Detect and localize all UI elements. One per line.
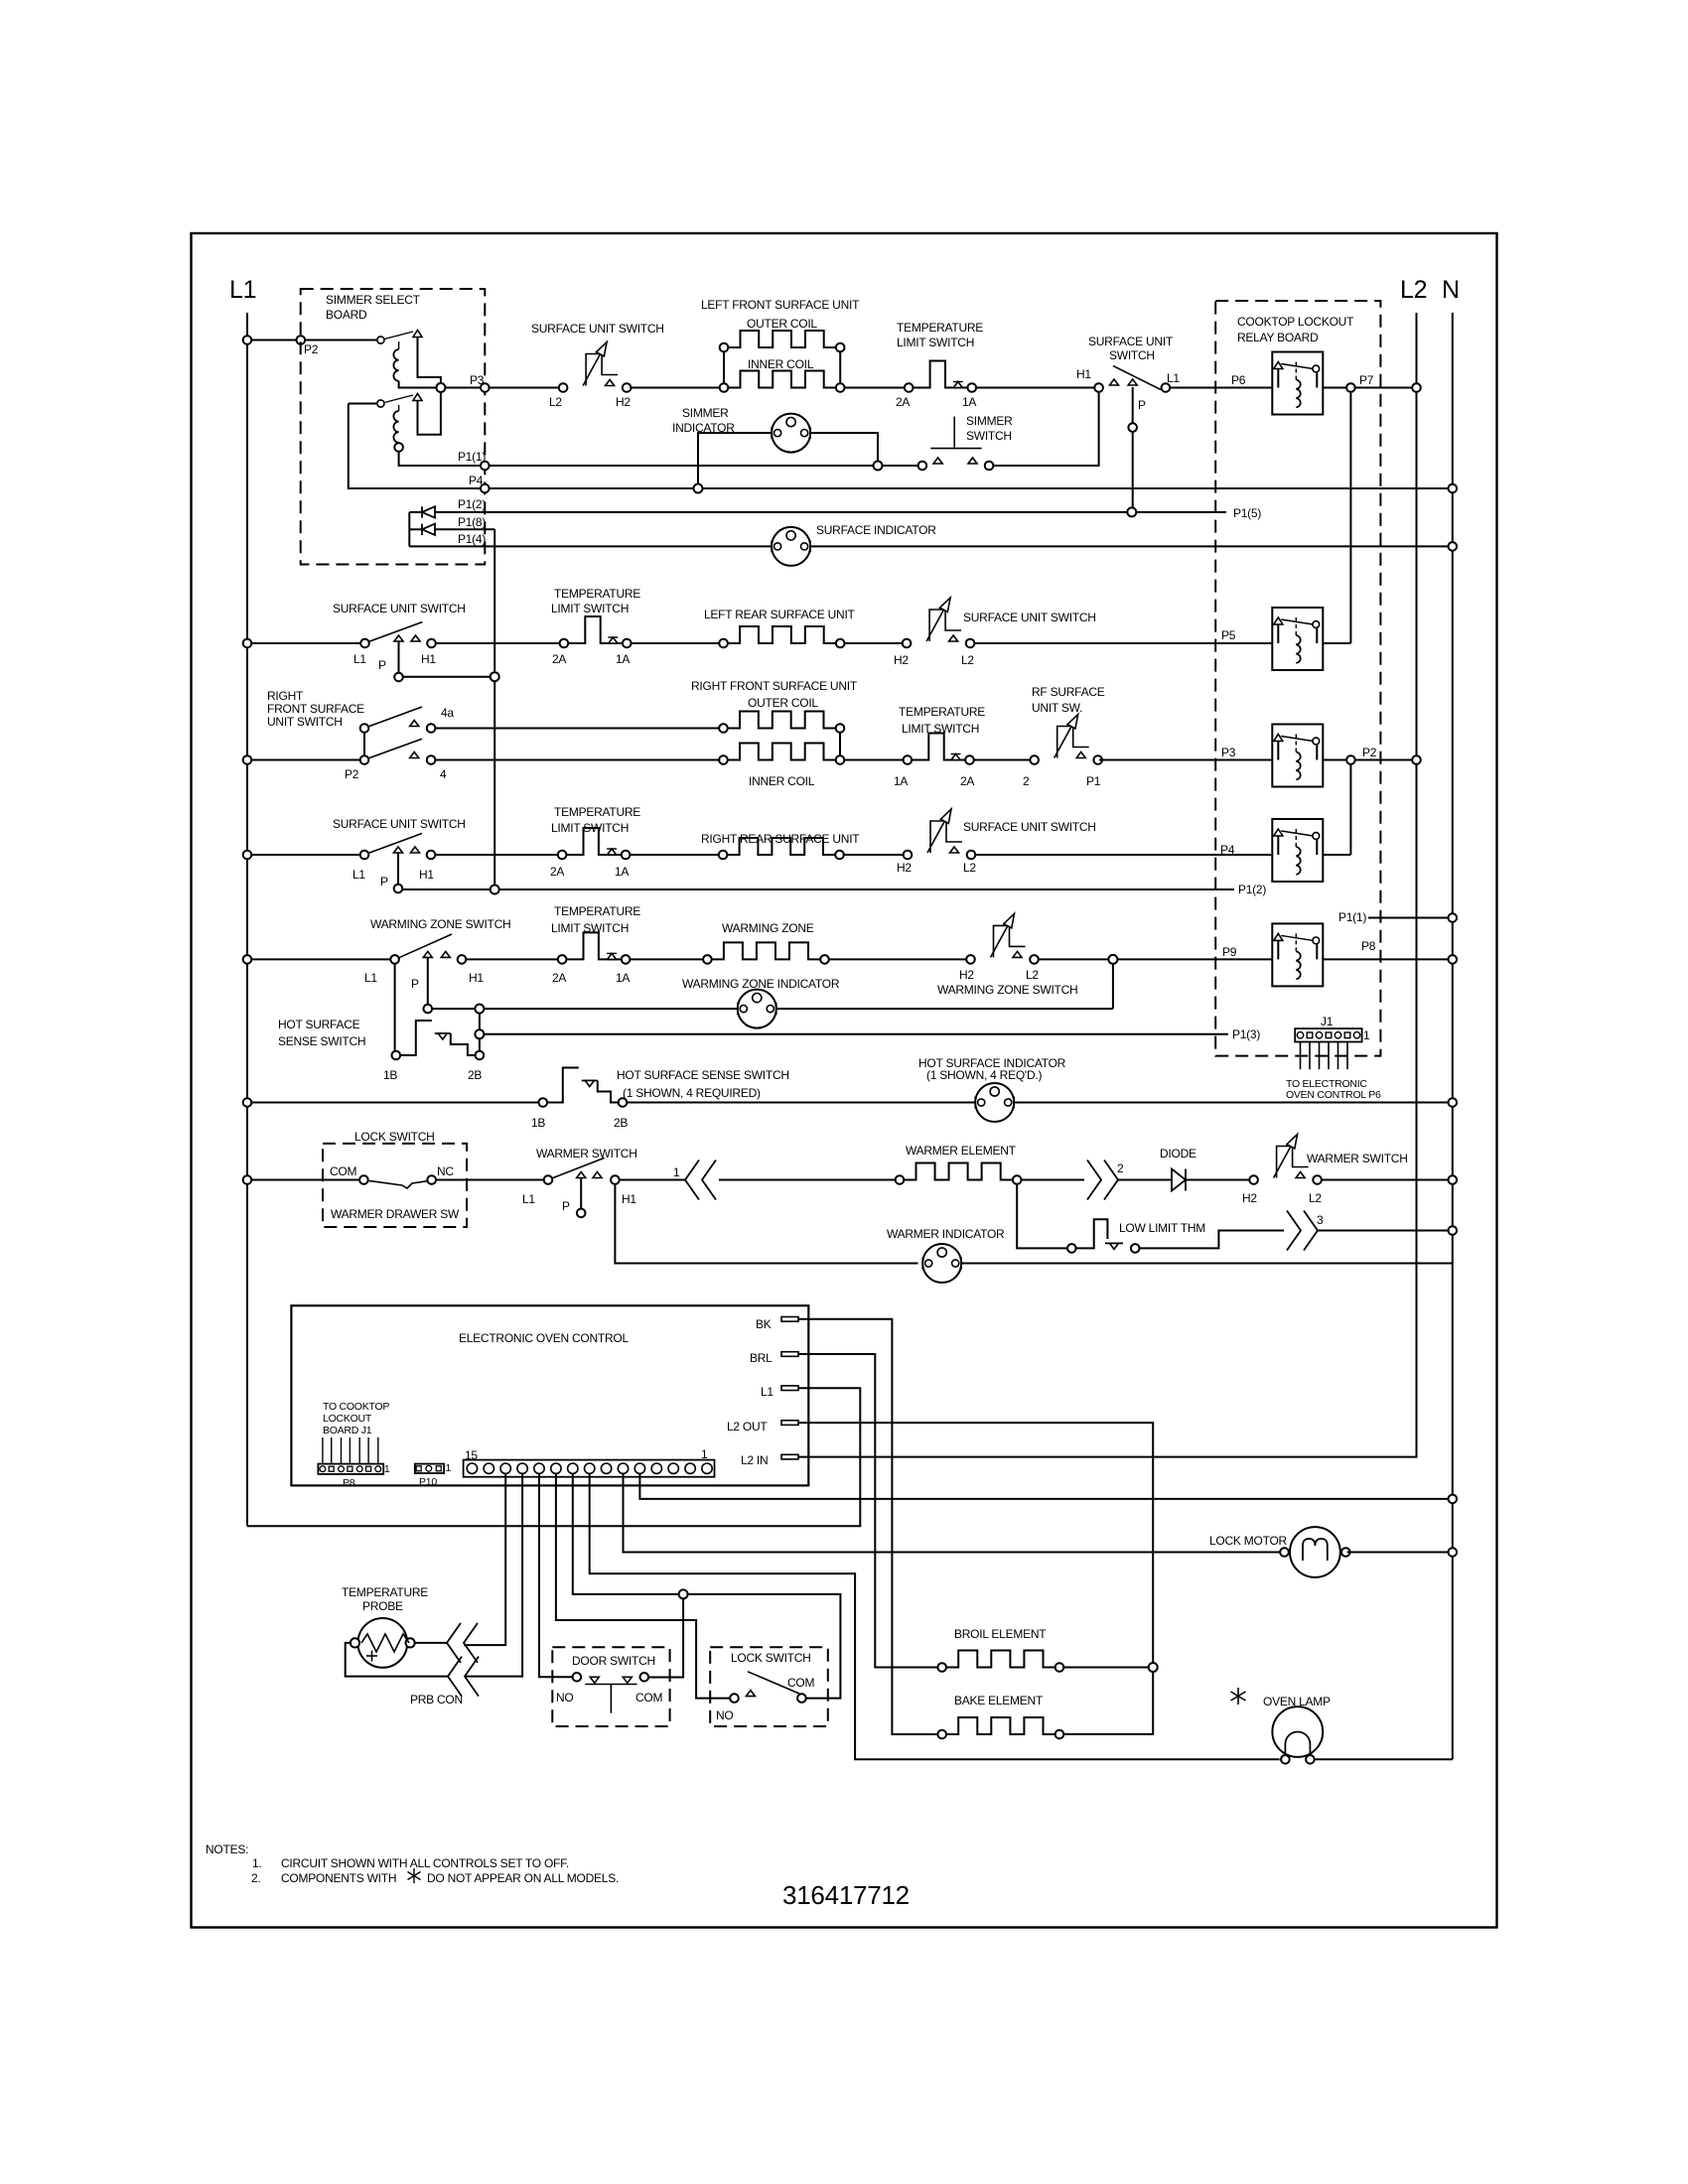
wire L2 IN to L2 bus bbox=[798, 1453, 1417, 1457]
svg-text:L2: L2 bbox=[1309, 1191, 1322, 1205]
hot surface sense switch bbox=[531, 1068, 628, 1131]
svg-text:NOTES:: NOTES: bbox=[206, 1843, 248, 1856]
warmer switch bbox=[522, 1158, 636, 1213]
svg-text:LIMIT SWITCH: LIMIT SWITCH bbox=[897, 336, 974, 349]
wire indicator to N bus rung6 bbox=[1014, 1098, 1457, 1107]
svg-text:OUTER COIL: OUTER COIL bbox=[748, 696, 818, 710]
junction P vertical on P1(5) row bbox=[1127, 506, 1261, 520]
connector P10 bbox=[415, 1462, 452, 1488]
junction hot sense top bbox=[475, 1005, 484, 1014]
svg-text:1: 1 bbox=[446, 1462, 452, 1474]
warming zone element bbox=[703, 942, 829, 963]
wire 1A to warming element bbox=[630, 958, 703, 960]
svg-text:2A: 2A bbox=[550, 865, 564, 879]
warmer drawer sw label bbox=[331, 1207, 460, 1221]
temperature limit switch TL2 bbox=[552, 616, 632, 666]
svg-text:P8: P8 bbox=[343, 1477, 355, 1489]
temperature probe bbox=[351, 1618, 415, 1668]
svg-text:2A: 2A bbox=[552, 652, 566, 666]
warming zone indicator label bbox=[682, 977, 840, 991]
svg-text:P: P bbox=[378, 658, 386, 672]
svg-text:COMPONENTS WITH: COMPONENTS WITH bbox=[281, 1871, 396, 1885]
wire L2 to N bus rung7 bbox=[1322, 1175, 1457, 1184]
svg-text:N: N bbox=[1442, 276, 1460, 304]
border frame bbox=[192, 233, 1497, 1928]
svg-text:SURFACE UNIT SWITCH: SURFACE UNIT SWITCH bbox=[963, 820, 1096, 834]
wire P7 to L2 bus bbox=[1355, 383, 1421, 392]
wire strip pin3 to probe bbox=[464, 1473, 505, 1645]
bus L2 vertical wire bbox=[1416, 313, 1418, 1453]
temperature limit switch TL2 label bbox=[551, 587, 640, 615]
svg-text:RIGHT: RIGHT bbox=[267, 689, 304, 703]
wire junction to relay RL5 bbox=[1117, 945, 1272, 959]
surface unit switch SW1 bbox=[549, 342, 631, 410]
warming zone element label bbox=[722, 921, 814, 935]
right front unit switch label bbox=[267, 689, 364, 729]
pin BRL bbox=[750, 1351, 798, 1365]
switch SW5 upper pole bbox=[360, 706, 455, 733]
wire diode to H2 bbox=[1186, 1179, 1249, 1181]
hot surface sense switch label bbox=[617, 1068, 789, 1100]
door switch dashed box bbox=[552, 1647, 669, 1726]
svg-text:SURFACE UNIT SWITCH: SURFACE UNIT SWITCH bbox=[531, 322, 664, 336]
wire H1 to chevron bbox=[620, 1179, 685, 1181]
wire P1(3) row bbox=[484, 1027, 1260, 1041]
svg-text:P: P bbox=[562, 1199, 570, 1213]
notes label bbox=[206, 1843, 248, 1856]
node P2 lockout bbox=[1346, 746, 1377, 764]
wire element to H2 rung2 bbox=[845, 642, 903, 644]
svg-text:SIMMER: SIMMER bbox=[682, 406, 729, 420]
wire 2B up to P1(3) row bbox=[479, 1014, 481, 1051]
svg-text:P1(1): P1(1) bbox=[458, 450, 486, 464]
node P4 bbox=[469, 474, 490, 492]
wire 1A to H1 bbox=[976, 387, 1094, 389]
svg-text:INNER COIL: INNER COIL bbox=[749, 774, 815, 788]
svg-text:TEMPERATURE: TEMPERATURE bbox=[899, 705, 985, 719]
pin L2 OUT bbox=[727, 1420, 798, 1433]
svg-text:SENSE SWITCH: SENSE SWITCH bbox=[278, 1034, 365, 1048]
svg-text:L2: L2 bbox=[549, 395, 562, 409]
svg-text:P1(2): P1(2) bbox=[1238, 883, 1266, 896]
wire riser right outer coil bbox=[839, 351, 841, 383]
wire 1A to element rung4 bbox=[630, 854, 718, 856]
svg-text:SURFACE INDICATOR: SURFACE INDICATOR bbox=[816, 523, 936, 537]
node P1(1) bbox=[458, 450, 490, 470]
svg-text:L2: L2 bbox=[963, 861, 976, 875]
wire P1(2)/P1(5) row bbox=[435, 497, 1226, 512]
svg-text:2A: 2A bbox=[552, 971, 566, 985]
svg-text:P2: P2 bbox=[345, 767, 359, 781]
relay K1 coil bbox=[393, 341, 441, 388]
warmer element label bbox=[906, 1144, 1017, 1158]
svg-text:P6: P6 bbox=[1231, 373, 1246, 387]
svg-text:BK: BK bbox=[756, 1317, 772, 1331]
temperature limit switch TL3 bbox=[894, 734, 974, 789]
right rear surface unit element bbox=[719, 838, 844, 859]
wire coil right link bbox=[839, 733, 841, 755]
pin L2 IN bbox=[741, 1453, 798, 1467]
svg-text:RELAY BOARD: RELAY BOARD bbox=[1237, 331, 1319, 344]
cooktop lockout relay board label bbox=[1237, 315, 1354, 344]
node N bus label bbox=[1442, 276, 1460, 304]
svg-text:H2: H2 bbox=[616, 395, 631, 409]
connector probe chevron 2 bbox=[448, 1657, 479, 1697]
note 1 bbox=[252, 1856, 569, 1870]
junction broil right bbox=[1149, 1663, 1158, 1672]
svg-text:P1(8): P1(8) bbox=[458, 515, 486, 529]
bake element label bbox=[954, 1694, 1044, 1707]
door switch label bbox=[572, 1654, 655, 1668]
surface unit switch SW6 bbox=[352, 834, 435, 893]
svg-text:LOCK MOTOR: LOCK MOTOR bbox=[1209, 1534, 1288, 1548]
svg-text:HOT SURFACE SENSE SWITCH: HOT SURFACE SENSE SWITCH bbox=[617, 1068, 789, 1082]
svg-text:COOKTOP LOCKOUT: COOKTOP LOCKOUT bbox=[1237, 315, 1354, 329]
wire BK to bake element bbox=[798, 1319, 937, 1734]
pin BK bbox=[756, 1317, 798, 1332]
wire L2 to relay RL2 bbox=[974, 628, 1272, 643]
svg-text:L1: L1 bbox=[229, 276, 256, 304]
svg-text:DIODE: DIODE bbox=[1160, 1147, 1196, 1160]
to cooktop lockout board label bbox=[323, 1401, 389, 1436]
svg-text:1: 1 bbox=[1363, 1028, 1370, 1042]
wire H1 to 2A rung4 bbox=[435, 854, 558, 856]
relay RL1 bbox=[1272, 352, 1323, 415]
svg-text:H1: H1 bbox=[1076, 367, 1091, 381]
node L2 bus label bbox=[1400, 276, 1427, 304]
node P2 bbox=[297, 336, 319, 356]
relay RL2 bbox=[1272, 608, 1323, 670]
right front outer coil element bbox=[719, 712, 844, 733]
surface unit switch SW3 label bbox=[333, 602, 466, 615]
lock switch dashed box bbox=[710, 1647, 828, 1726]
surface unit switch SW1 label bbox=[531, 322, 664, 336]
warming zone switch right bbox=[959, 913, 1039, 982]
node L1 rung1 bbox=[1162, 371, 1181, 392]
warming zone switch label bbox=[370, 917, 510, 931]
warmer indicator bbox=[922, 1244, 961, 1283]
wire simmer indicator left leg bbox=[698, 433, 772, 483]
surface unit switch SW7 label bbox=[963, 820, 1096, 834]
wire P3 to L2 bbox=[490, 387, 559, 389]
wire K2 fixed lead to A1 bbox=[418, 392, 441, 435]
right front surface unit label bbox=[691, 679, 858, 788]
wire probe left leg bbox=[346, 1643, 448, 1677]
svg-text:H1: H1 bbox=[421, 652, 436, 666]
junction rung5 bbox=[1108, 955, 1117, 964]
svg-text:4: 4 bbox=[440, 767, 447, 781]
simmer indicator bbox=[772, 414, 810, 453]
svg-text:ELECTRONIC OVEN CONTROL: ELECTRONIC OVEN CONTROL bbox=[459, 1331, 630, 1345]
svg-text:L1: L1 bbox=[1167, 371, 1180, 385]
svg-text:UNIT SWITCH: UNIT SWITCH bbox=[267, 715, 343, 729]
svg-text:SURFACE UNIT: SURFACE UNIT bbox=[1088, 335, 1174, 348]
svg-text:H1: H1 bbox=[419, 868, 434, 882]
diode D2 bbox=[409, 524, 435, 535]
svg-text:15: 15 bbox=[465, 1448, 478, 1462]
node P3 bbox=[470, 373, 490, 392]
wire chevron 3 to N bus bbox=[1318, 1226, 1457, 1235]
svg-text:P: P bbox=[1138, 398, 1146, 412]
temperature limit switch TL3 label bbox=[899, 705, 985, 736]
svg-text:P2: P2 bbox=[1362, 746, 1377, 759]
svg-text:L1: L1 bbox=[353, 652, 366, 666]
wire L1 bus to lock switch bbox=[243, 1175, 359, 1184]
relay K1 contact in simmer board bbox=[304, 331, 422, 344]
wire SW6 P row to P1(2) bbox=[402, 888, 1234, 890]
wire L1 bus to SW6 bbox=[243, 851, 361, 860]
svg-text:LEFT FRONT SURFACE UNIT: LEFT FRONT SURFACE UNIT bbox=[701, 298, 860, 312]
connector chevron 2 bbox=[1087, 1160, 1124, 1200]
svg-text:TEMPERATURE: TEMPERATURE bbox=[554, 587, 640, 601]
svg-text:TO COOKTOP: TO COOKTOP bbox=[323, 1401, 389, 1413]
surface unit switch SW4 bbox=[894, 598, 974, 667]
temperature limit switch TL4 bbox=[550, 828, 630, 879]
warmer switch right label bbox=[1307, 1152, 1408, 1165]
switch SW5 lower pole bbox=[345, 739, 447, 781]
wire oven lamp to N bus bbox=[1315, 1758, 1453, 1760]
surface unit switch SW7 bbox=[897, 809, 976, 875]
diode D1 bbox=[409, 506, 435, 517]
svg-text:SURFACE UNIT SWITCH: SURFACE UNIT SWITCH bbox=[333, 602, 466, 615]
wire strip pin7 to lock switch COM bbox=[573, 1473, 841, 1698]
simmer select board dashed box bbox=[301, 289, 486, 565]
svg-text:BROIL ELEMENT: BROIL ELEMENT bbox=[954, 1627, 1047, 1641]
junction on P1(1) row bbox=[874, 462, 883, 471]
wire J1 pin leads bbox=[1301, 1042, 1348, 1070]
svg-text:TEMPERATURE: TEMPERATURE bbox=[554, 904, 640, 918]
svg-text:L1: L1 bbox=[352, 868, 365, 882]
svg-text:P: P bbox=[380, 875, 388, 888]
wire P2 to L2 bus bbox=[1355, 755, 1421, 764]
connector probe chevron 1 bbox=[447, 1623, 478, 1663]
right rear surface unit label bbox=[701, 832, 860, 846]
wire H1 drop to indicator row bbox=[615, 1184, 917, 1264]
wire diode bracket left bbox=[408, 512, 410, 547]
svg-text:L2: L2 bbox=[1400, 276, 1427, 304]
wire strip pin4 to probe bbox=[465, 1473, 522, 1676]
svg-text:BOARD J1: BOARD J1 bbox=[323, 1425, 372, 1436]
svg-text:SIMMER: SIMMER bbox=[966, 414, 1013, 428]
note 2 asterisk bbox=[408, 1868, 421, 1883]
svg-text:SIMMER SELECT: SIMMER SELECT bbox=[326, 293, 421, 307]
svg-text:1: 1 bbox=[673, 1165, 680, 1179]
wire to simmer switch bbox=[883, 465, 918, 467]
svg-text:2A: 2A bbox=[960, 774, 974, 788]
svg-text:PROBE: PROBE bbox=[362, 1599, 403, 1613]
svg-text:2.: 2. bbox=[251, 1871, 261, 1885]
surface unit switch SW3 bbox=[353, 622, 436, 682]
connector chevron 3 bbox=[1287, 1211, 1324, 1251]
wire P1(8) row bbox=[435, 515, 494, 529]
svg-text:UNIT SW.: UNIT SW. bbox=[1032, 701, 1082, 715]
svg-text:COM: COM bbox=[787, 1676, 815, 1690]
junction on P1(3) row bbox=[475, 1029, 484, 1038]
svg-text:P7: P7 bbox=[1359, 373, 1374, 387]
svg-text:P4: P4 bbox=[1220, 843, 1235, 857]
svg-text:NO: NO bbox=[556, 1691, 574, 1705]
hot surface sense switch label left bbox=[278, 1018, 365, 1048]
warmer drawer switch dashed box bbox=[323, 1144, 467, 1227]
node P7 bbox=[1346, 373, 1374, 392]
svg-text:HOT SURFACE: HOT SURFACE bbox=[278, 1018, 360, 1031]
junction door COM branch bbox=[679, 1589, 688, 1598]
simmer indicator label bbox=[672, 406, 735, 435]
svg-text:P1: P1 bbox=[1086, 774, 1101, 788]
relay K2 coil bbox=[393, 405, 481, 466]
wire simmer switch to H1 bbox=[993, 392, 1098, 466]
wire 1A to element rung2 bbox=[632, 642, 720, 644]
wire relay RL5 output to N bus bbox=[1323, 939, 1457, 964]
svg-text:H2: H2 bbox=[959, 968, 974, 982]
wire element to H2 rung5 bbox=[829, 958, 966, 960]
svg-text:BAKE ELEMENT: BAKE ELEMENT bbox=[954, 1694, 1044, 1707]
wire probe right to chevron bbox=[415, 1642, 447, 1644]
svg-text:NO: NO bbox=[716, 1708, 734, 1722]
warmer indicator label bbox=[887, 1227, 1005, 1241]
wire vertical x498 bbox=[493, 529, 495, 889]
svg-text:P1(2): P1(2) bbox=[458, 497, 486, 511]
wire lock motor to N bus bbox=[1347, 1548, 1458, 1557]
oven lamp bbox=[1272, 1706, 1323, 1764]
temperature limit switch TL1 bbox=[896, 361, 976, 410]
svg-text:P3: P3 bbox=[470, 373, 485, 387]
svg-text:SWITCH: SWITCH bbox=[966, 429, 1012, 443]
wire L1 to P2 bbox=[243, 336, 301, 344]
left front surface unit label bbox=[701, 298, 860, 371]
warmer element bbox=[896, 1163, 1022, 1184]
wire warmer P drop bbox=[577, 1178, 586, 1218]
svg-text:L1: L1 bbox=[522, 1192, 535, 1206]
broil element label bbox=[954, 1627, 1047, 1641]
note 2 bbox=[251, 1871, 619, 1885]
wire inner coil to 1A rung3 bbox=[844, 759, 903, 761]
wire 2B to hot surface indicator bbox=[627, 1102, 975, 1104]
svg-text:LOCK SWITCH: LOCK SWITCH bbox=[731, 1651, 811, 1665]
svg-text:WARMING ZONE SWITCH: WARMING ZONE SWITCH bbox=[370, 917, 510, 931]
bus N vertical wire bbox=[1452, 313, 1454, 1759]
hot surface indicator label bbox=[918, 1056, 1066, 1082]
wire L2 OUT to elements bbox=[798, 1423, 1153, 1734]
wire L1 pin to L1 bus bbox=[247, 1388, 860, 1526]
wire P2 vertical to relay RL4 bbox=[1349, 764, 1351, 855]
to electronic oven control label bbox=[1286, 1078, 1381, 1101]
surface indicator bbox=[772, 523, 936, 566]
node H1 rung1 bbox=[1076, 367, 1103, 392]
wire P1(1) row bbox=[490, 465, 874, 467]
svg-text:LOCK SWITCH: LOCK SWITCH bbox=[354, 1130, 435, 1144]
svg-text:1A: 1A bbox=[616, 971, 630, 985]
lock switch contacts bbox=[330, 1164, 454, 1188]
wire P1(4) row to N bus bbox=[810, 542, 1457, 551]
svg-text:H1: H1 bbox=[622, 1192, 636, 1206]
svg-text:2B: 2B bbox=[468, 1068, 482, 1082]
broil element bbox=[937, 1651, 1063, 1672]
svg-text:316417712: 316417712 bbox=[782, 1880, 910, 1910]
wire H1 to 2A rung2 bbox=[436, 642, 560, 644]
svg-text:WARMER INDICATOR: WARMER INDICATOR bbox=[887, 1227, 1005, 1241]
svg-text:P4: P4 bbox=[469, 474, 484, 487]
wire junction drop to indicator row bbox=[1112, 964, 1114, 1009]
wire strip pin6 to lock switch NO bbox=[556, 1473, 730, 1698]
wire indicator row right bbox=[776, 1008, 1113, 1010]
svg-text:TEMPERATURE: TEMPERATURE bbox=[342, 1585, 428, 1599]
wire broil right to junction bbox=[1063, 1667, 1148, 1669]
bake element bbox=[937, 1717, 1063, 1738]
wire rung3 to inner coil bbox=[435, 759, 719, 761]
wire L1 bus to SW5 bbox=[243, 755, 360, 764]
wire P1 to relay RL3 bbox=[1099, 746, 1272, 760]
wire H1 to 2A rung5 bbox=[466, 958, 558, 960]
svg-text:L2: L2 bbox=[1026, 968, 1039, 982]
wire P1(4) row bbox=[409, 532, 772, 546]
wire relay RL2 output bbox=[1323, 642, 1350, 644]
svg-text:WARMER DRAWER SW: WARMER DRAWER SW bbox=[331, 1207, 460, 1221]
wire riser left outer coil bbox=[723, 351, 725, 383]
surface unit switch SW2 blade bbox=[1110, 366, 1162, 390]
wire P7 vertical to relay RL2 bbox=[1349, 392, 1351, 643]
connector P8 pins bbox=[320, 1466, 381, 1472]
svg-text:L1: L1 bbox=[364, 971, 377, 985]
rf surface unit switch label bbox=[1032, 685, 1105, 715]
svg-text:NC: NC bbox=[437, 1164, 454, 1178]
svg-text:LIMIT SWITCH: LIMIT SWITCH bbox=[551, 602, 629, 615]
svg-text:COM: COM bbox=[635, 1691, 663, 1705]
svg-text:2: 2 bbox=[1117, 1161, 1124, 1175]
wire element drop to low limit bbox=[1017, 1184, 1067, 1249]
wire H2 to element bbox=[631, 387, 719, 389]
svg-text:RIGHT FRONT SURFACE UNIT: RIGHT FRONT SURFACE UNIT bbox=[691, 679, 858, 693]
node L1 bus label bbox=[229, 276, 256, 304]
wire P1(1) right row bbox=[1338, 910, 1457, 924]
warming zone indicator bbox=[738, 990, 776, 1028]
svg-text:TEMPERATURE: TEMPERATURE bbox=[554, 805, 640, 819]
relay RL3 bbox=[1272, 725, 1323, 787]
svg-text:1A: 1A bbox=[962, 395, 976, 409]
wire chevron to diode bbox=[1118, 1179, 1172, 1181]
svg-text:1: 1 bbox=[701, 1447, 708, 1461]
svg-text:FRONT SURFACE: FRONT SURFACE bbox=[267, 702, 364, 716]
relay K2 contact in simmer board bbox=[349, 394, 422, 408]
svg-text:1B: 1B bbox=[531, 1116, 545, 1130]
low limit thermostat bbox=[1067, 1219, 1284, 1252]
wire L1 bus to 1B rung6 bbox=[243, 1098, 539, 1107]
temperature limit switch TL4 label bbox=[551, 805, 640, 835]
part number bbox=[782, 1880, 910, 1910]
wire strip pin8 to oven lamp bbox=[590, 1473, 1280, 1759]
left rear surface unit label bbox=[704, 608, 856, 621]
right front inner coil element bbox=[719, 744, 844, 764]
connector J1 pins bbox=[1297, 1032, 1359, 1038]
lock motor bbox=[1280, 1527, 1349, 1577]
svg-text:P8: P8 bbox=[1361, 939, 1376, 953]
wire L1 bus to SW3 bbox=[243, 639, 361, 648]
surface unit switch SW4 label bbox=[963, 611, 1096, 624]
svg-text:J1: J1 bbox=[1321, 1015, 1334, 1028]
relay RL5 bbox=[1272, 923, 1323, 986]
wire element to chevron 2 bbox=[1022, 1179, 1085, 1181]
svg-text:1.: 1. bbox=[252, 1856, 262, 1870]
svg-text:H2: H2 bbox=[894, 653, 909, 667]
svg-text:2B: 2B bbox=[614, 1116, 628, 1130]
svg-text:OUTER COIL: OUTER COIL bbox=[747, 317, 817, 331]
low limit thermostat label bbox=[1119, 1221, 1205, 1235]
wire indicator row left bbox=[432, 1008, 738, 1010]
lock switch label rung7 bbox=[354, 1130, 435, 1144]
connector J1 bbox=[1295, 1015, 1370, 1042]
svg-text:WARMER ELEMENT: WARMER ELEMENT bbox=[906, 1144, 1017, 1158]
svg-text:L2 IN: L2 IN bbox=[741, 1453, 768, 1467]
